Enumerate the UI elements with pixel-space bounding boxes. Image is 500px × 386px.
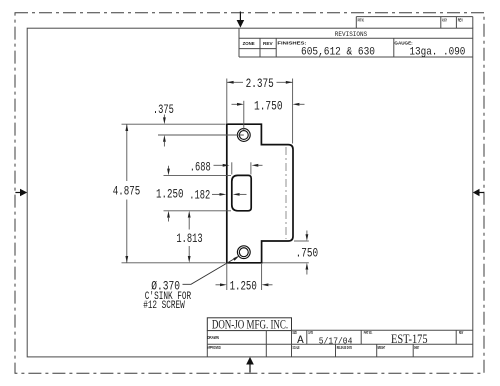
ext: lip bottom to right <box>294 240 309 242</box>
ext: plate top to left <box>122 123 226 125</box>
strike plate outline <box>227 124 293 263</box>
ext: bottom 1.250 left vertical <box>226 264 228 290</box>
top edge center arrow <box>237 12 245 28</box>
dimension 2.375 <box>227 77 293 91</box>
right edge center arrow <box>473 189 484 197</box>
svg-text:PART NO.: PART NO. <box>364 330 372 335</box>
dimension 1.750 <box>232 100 305 114</box>
svg-text:SHEET: SHEET <box>414 345 419 350</box>
svg-text:DATE: DATE <box>308 330 313 335</box>
top-right mini part-no strip <box>356 17 473 29</box>
lip centerline <box>285 147 287 239</box>
svg-text:1.750: 1.750 <box>254 100 283 114</box>
svg-text:EST-175: EST-175 <box>391 331 428 346</box>
bottom edge center arrow <box>246 357 254 373</box>
top screw hole <box>237 129 250 142</box>
ext: 2.375 left vertical <box>226 79 228 124</box>
svg-text:ASSY: ASSY <box>442 18 447 23</box>
svg-text:SCALE: SCALE <box>293 345 300 350</box>
ext: bottom 1.250 right vertical <box>261 264 263 290</box>
ext: .688 left vertical <box>231 162 233 174</box>
svg-text:2.375: 2.375 <box>246 77 274 91</box>
bottom screw hole <box>237 246 250 259</box>
dimension 1.813 <box>176 211 202 263</box>
svg-text:DRAWN: DRAWN <box>207 335 219 340</box>
svg-text:APPROVED: APPROVED <box>207 345 221 350</box>
dimension 4.875 <box>113 124 141 263</box>
svg-text:13ga. .090: 13ga. .090 <box>409 46 465 58</box>
ext: 2.375/1.750 right vertical <box>292 79 294 144</box>
svg-text:.182: .182 <box>189 188 210 202</box>
svg-text:DON-JO MFG. INC.: DON-JO MFG. INC. <box>212 317 288 331</box>
company box <box>207 318 291 331</box>
svg-text:.750: .750 <box>296 247 319 261</box>
inner solid sheet border <box>27 28 473 357</box>
svg-text:1.250: 1.250 <box>156 188 184 202</box>
svg-text:REV: REV <box>458 18 463 23</box>
svg-text:#12 SCREW: #12 SCREW <box>143 300 185 312</box>
svg-text:REVISIONS: REVISIONS <box>335 31 367 38</box>
latch slot <box>232 175 251 210</box>
svg-text:.688: .688 <box>190 160 211 174</box>
svg-text:1.813: 1.813 <box>176 232 202 246</box>
leader to countersink callout <box>183 256 240 285</box>
left edge center arrow <box>15 189 27 197</box>
dimension 1.250 (bottom) <box>216 280 273 294</box>
dimension 1.250 (slot height) <box>156 166 184 222</box>
svg-text:PART NO.: PART NO. <box>358 18 365 23</box>
ext: slot bottom to left <box>164 210 232 212</box>
ext: .688 right vertical <box>250 162 252 174</box>
extension lines <box>122 79 309 291</box>
dimension .688 <box>190 160 263 174</box>
svg-text:ZONE: ZONE <box>243 41 255 46</box>
ext: plate bottom to left <box>122 262 226 264</box>
svg-text:FINISHES:: FINISHES: <box>277 40 307 45</box>
svg-text:.375: .375 <box>153 103 174 117</box>
svg-text:WEIGHT: WEIGHT <box>378 345 386 350</box>
svg-text:GAUGE:: GAUGE: <box>394 40 413 45</box>
svg-text:4.875: 4.875 <box>113 185 141 199</box>
title block grid <box>207 330 473 357</box>
dimension .750 <box>296 231 319 275</box>
svg-text:605,612 & 630: 605,612 & 630 <box>301 46 375 58</box>
svg-text:REV: REV <box>263 41 273 46</box>
svg-text:1.250: 1.250 <box>230 280 257 294</box>
ext: top hole center to left <box>158 134 244 136</box>
ext: plate bottom to right <box>263 262 309 264</box>
dimension .182 <box>189 188 246 202</box>
dimension .375 <box>153 103 174 147</box>
ext: slot top to left <box>164 174 232 176</box>
revisions block <box>239 28 473 57</box>
ext: 1.750 left vertical at hole center <box>243 101 245 130</box>
svg-text:RELEASE DATE: RELEASE DATE <box>337 345 352 350</box>
svg-text:REV: REV <box>459 330 463 335</box>
